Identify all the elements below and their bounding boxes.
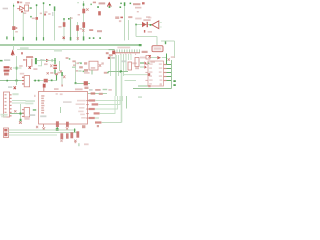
wire y71: [108, 71, 128, 73]
node dot f2: [38, 80, 40, 82]
comp on box bottom 1: [56, 121, 59, 127]
label inside U1: [159, 84, 162, 85]
C5 cross: [10, 67, 12, 70]
wire vert x62: [61, 72, 63, 85]
node dot f3: [51, 80, 53, 82]
label x f: [47, 72, 49, 74]
pin tick V2 bottom: [23, 37, 24, 41]
bus bundle wire 2: [115, 55, 117, 96]
power label VCC: [99, 2, 106, 4]
label small: [78, 14, 80, 16]
label right: [84, 72, 90, 74]
green dash x33: [33, 109, 36, 111]
label near V7: [70, 17, 72, 19]
buzzer SP1: [152, 21, 159, 29]
label crossing V10: [120, 17, 123, 19]
pin row stub c: [78, 70, 81, 71]
faint label: [148, 31, 152, 33]
label pair: [115, 16, 119, 19]
capacitor C6 stub top: [54, 58, 56, 64]
cap row comp2: [66, 133, 69, 138]
wire isp 3: [9, 134, 58, 136]
wire power input: [0, 80, 24, 82]
node dot prow: [80, 63, 82, 65]
node dot buzzer: [150, 24, 152, 26]
node dot D: [89, 37, 91, 39]
net text tr: [138, 96, 142, 98]
chain wire 1: [151, 57, 157, 59]
net label on rail 2: [54, 49, 62, 52]
red tick bottom: [75, 141, 77, 144]
bus bundle wire 3: [118, 55, 120, 76]
capacitor C1 on V1: [12, 26, 15, 30]
node dot on power wire: [6, 80, 8, 82]
node dot: [68, 18, 70, 20]
pin stub y104.5: [86, 104, 88, 105]
wire up from node: [56, 75, 58, 81]
pin stub y118: [86, 118, 88, 119]
wire vcc stub: [13, 45, 15, 50]
node after LED1: [147, 62, 149, 64]
label above box 5: [108, 89, 111, 91]
label D2: [58, 26, 61, 28]
chain comp L: [146, 55, 150, 59]
label left of button: [84, 62, 87, 64]
net label y100.5: [89, 99, 96, 101]
label above box 2: [75, 88, 83, 90]
wire V8: [77, 22, 79, 41]
pin tick V5 top: [54, 6, 56, 10]
node dots right: [173, 80, 175, 82]
pin tick V4 bottom: [43, 37, 44, 40]
net label y104.5: [92, 103, 99, 105]
wire second rail: [17, 49, 114, 51]
fuse F1: [44, 79, 48, 83]
wire horizontal lower: [136, 36, 157, 38]
junction mark D1: [86, 8, 88, 10]
junction mark V4: [44, 14, 46, 16]
junction power: [16, 80, 18, 82]
pin tick junction: [165, 41, 166, 44]
wire V7: [70, 17, 72, 41]
wire vert mid: [59, 61, 61, 71]
wire pin y93.5: [88, 93, 107, 95]
wire j1 main: [10, 113, 24, 115]
diode D1 on V9: [82, 9, 85, 14]
pin labels right side inside: [76, 100, 86, 119]
label C1: [15, 31, 18, 33]
gate cross mark: [21, 11, 23, 13]
wire stub y118: [95, 117, 99, 119]
chain cross 2: [168, 58, 170, 60]
power symbol VCC arrow: [107, 2, 111, 7]
RN1 top label: [117, 47, 130, 49]
wire isp 2: [9, 132, 79, 134]
polyfuse on y83: [84, 81, 88, 85]
wire fuse right: [48, 80, 57, 82]
crystal Y1 above box: [43, 84, 46, 88]
pin row label a1: [72, 60, 75, 62]
faint label: [135, 18, 141, 20]
net text gray: [40, 59, 45, 61]
wire left stub: [0, 60, 3, 62]
SV1 inner marks2: [4, 133, 7, 137]
diode D6: [46, 59, 50, 62]
power symbol +5V arrow: [11, 50, 14, 55]
gnd cross symbol: [19, 121, 22, 123]
wire V4: [43, 3, 45, 41]
diode D2 on V6: [63, 22, 66, 27]
wire y113.5: [100, 96, 115, 114]
button cross: [99, 64, 101, 67]
pin tick V3 top: [36, 4, 38, 6]
J1 pins right: [10, 94, 12, 116]
bus bundle wire 7: [128, 54, 130, 60]
label text right of box: [25, 2, 30, 4]
wire stub x60: [60, 107, 62, 113]
cross above isp wires: [36, 126, 38, 128]
label f text: [50, 72, 53, 74]
node dot B: [109, 6, 111, 8]
green label rows: [25, 100, 35, 102]
wire y88 long: [133, 88, 172, 90]
gnd cross bottom: [74, 140, 76, 142]
node dot G: [120, 3, 122, 5]
capacitor C5 plate2: [4, 70, 10, 72]
wire y104.5: [98, 96, 120, 105]
bus bundle wire 5: [123, 54, 125, 76]
capacitor C5 label: [4, 73, 9, 76]
label red near rail: [106, 52, 109, 54]
label above box 4: [95, 89, 100, 91]
bus bundle wire 8: [130, 54, 132, 60]
pin stub y100.5: [86, 100, 88, 101]
node dot reg: [51, 60, 53, 62]
wire V9: [83, 1, 85, 41]
pin row stub c2: [84, 70, 87, 71]
wire gnd vertical: [20, 104, 22, 120]
wire V1: [13, 4, 15, 41]
wire V5: [54, 7, 56, 41]
label small top: [66, 57, 69, 59]
X3 pins: [22, 109, 24, 117]
light green text rows tl: [25, 99, 27, 101]
LED wire 2: [140, 66, 144, 68]
pin tick V9 top: [83, 3, 85, 5]
green label rows2: [25, 103, 33, 105]
chain vertical: [166, 54, 168, 65]
net label y93.5b: [99, 93, 103, 95]
label tick: [144, 30, 145, 33]
wire isp 1: [9, 129, 77, 131]
node dot wire start: [135, 24, 137, 26]
gnd net text2: [1, 116, 6, 118]
IC U1 body: [148, 61, 164, 86]
resistor R4 on V9: [82, 22, 85, 28]
label pair2: [119, 20, 121, 22]
arrow below polyfuse: [84, 87, 88, 89]
gnd cross comp2: [66, 127, 69, 130]
bus bundle wire 6: [125, 54, 127, 72]
net label y93.5: [91, 92, 96, 94]
node dot stray: [30, 16, 32, 18]
rail bright segment: [109, 49, 115, 51]
RN1 right label: [142, 51, 148, 53]
small dash: [137, 11, 139, 12]
wire V2: [22, 12, 24, 41]
wire below comp1: [56, 127, 58, 130]
SV1 inner marks: [4, 129, 7, 131]
wire j1 b: [12, 102, 26, 104]
net label y118: [89, 117, 95, 119]
label f text2: [57, 72, 60, 74]
bus bundle wire 4: [120, 54, 122, 72]
faint dash inside box a: [56, 93, 58, 95]
cap row comp1: [60, 133, 63, 139]
pin tick V7 bottom: [70, 37, 72, 41]
U1 pin names right col: [159, 63, 162, 64]
U1 pins left stubs: [145, 64, 148, 81]
module A1 big box: [39, 92, 88, 125]
connector X2: [24, 76, 29, 87]
wire y100.5: [95, 96, 122, 101]
wire rail 3v3: [37, 59, 56, 61]
connector X2 pins: [22, 77, 24, 78]
long vertical x121: [121, 72, 123, 123]
button stub down: [91, 70, 93, 75]
rotated net name: [52, 12, 53, 16]
marks below U5: [135, 67, 139, 69]
wire j1 a: [12, 100, 26, 102]
wire V11: [128, 20, 130, 40]
green dash above box: [103, 89, 108, 90]
node dot C: [120, 6, 122, 8]
wire to buzzer: [136, 24, 152, 26]
node dot: [30, 7, 32, 9]
label rows top right: [133, 3, 140, 5]
pin tick V4 top: [43, 2, 45, 4]
gnd cross below junction: [14, 86, 16, 89]
pin stub y113.5: [86, 113, 88, 114]
wire y74.5 light: [124, 74, 150, 76]
button S1 box: [89, 61, 98, 70]
pin name column inside box: [41, 95, 44, 113]
wire cap link: [13, 67, 22, 69]
node dot below comp1: [56, 128, 59, 131]
pin tick V1 top: [13, 5, 14, 7]
cross on vert mid: [60, 70, 62, 72]
wire vertical reg: [16, 56, 18, 85]
junction y71: [120, 70, 122, 72]
button arrow: [101, 62, 103, 64]
capacitor C6 stub bottom: [54, 69, 56, 74]
pin stub y109: [86, 109, 88, 110]
value label V4: [44, 11, 47, 13]
label mid: [104, 72, 108, 74]
optocoupler U3 box: [25, 5, 29, 11]
regulator pin left: [23, 59, 26, 60]
gnd cross bottom2: [60, 140, 62, 142]
U1 pins right stubs: [164, 64, 167, 81]
transistor Q1: [17, 6, 24, 10]
chain cross: [149, 55, 151, 57]
gnd mark V6: [63, 37, 65, 39]
net text gray bundle2: [122, 60, 127, 62]
connector X3: [24, 108, 29, 117]
reg top tick red: [21, 52, 23, 54]
pin tick V6 top: [63, 18, 64, 20]
LED wire 1: [140, 62, 144, 64]
connector J1: [4, 92, 10, 117]
gnd label: [8, 86, 12, 88]
cross x62: [63, 75, 65, 78]
gnd mark V8: [77, 37, 79, 39]
wire to USB: [156, 37, 158, 46]
J1 inner pin marks: [5, 94, 7, 113]
wire y122.5: [102, 122, 122, 124]
red mark y125 right: [82, 125, 85, 128]
capacitor C6 plates: [53, 65, 57, 67]
pin tick V1 bottom: [13, 37, 14, 41]
pin row stub a1: [78, 62, 81, 63]
label right of V10: [128, 16, 132, 18]
junction bright 1: [16, 67, 18, 70]
label U4: [132, 62, 137, 64]
resistor network RN1 comb: [113, 52, 140, 54]
wire y109: [95, 96, 118, 109]
label D4: [89, 29, 93, 31]
chain wire 2: [162, 57, 167, 59]
value label: [20, 2, 23, 4]
wire down from junction: [16, 81, 18, 86]
label right of J1: [12, 93, 18, 95]
node dot F: [99, 37, 101, 39]
LED1: [144, 61, 146, 64]
junction gnd: [20, 113, 22, 115]
regulator label: [33, 68, 37, 70]
wire V3: [36, 5, 38, 41]
ISP header SV1: [4, 128, 9, 138]
label below: [23, 12, 26, 14]
button inner mark: [91, 67, 95, 69]
D6 gnd cross: [50, 64, 52, 67]
gnd cross fuse: [43, 83, 45, 86]
cap row comp3: [70, 132, 73, 138]
gnd tick: [20, 119, 22, 121]
pin tick V3 bottom: [36, 37, 37, 40]
wire GND bus: [0, 44, 142, 46]
faint label tr: [148, 17, 151, 19]
label top right of V9: [93, 2, 96, 4]
wire stub from U3: [29, 7, 31, 9]
resistor R3 on V8: [76, 25, 79, 31]
USB connector X1: [152, 46, 163, 52]
label above X2: [20, 73, 24, 75]
wire reg output bar: [35, 58, 37, 64]
wire V6: [63, 18, 65, 41]
label above box 3: [89, 89, 93, 91]
regulator label2: [19, 65, 22, 67]
label D5: [143, 19, 150, 21]
green dash to comp3: [74, 129, 76, 133]
label U5: [140, 57, 146, 59]
pin tick V9 bottom: [83, 36, 85, 40]
wire y86: [138, 85, 148, 87]
red dot tr: [108, 57, 110, 59]
node dot prow2: [83, 71, 85, 73]
chain diode: [157, 56, 161, 59]
cross j1: [14, 110, 16, 112]
gnd mark R4: [82, 29, 84, 31]
label R3: [80, 28, 82, 30]
chain label: [171, 56, 175, 58]
wire V10: [124, 3, 126, 41]
resistor R2 on V3: [36, 17, 39, 20]
node dot A: [97, 6, 99, 8]
comp on box bottom 2: [66, 122, 69, 127]
pin row stub b: [72, 67, 75, 68]
label above box 1: [54, 88, 59, 90]
faint text bottom: [84, 143, 89, 145]
net name text: [4, 59, 10, 61]
label text left: [3, 8, 8, 10]
bright seg x62: [61, 72, 63, 76]
U1 wires right: [167, 65, 172, 81]
U1 pin names left col: [149, 63, 152, 64]
node dot faint: [77, 2, 78, 3]
capacitor C5 plates: [4, 66, 10, 68]
red dot tr label: [111, 57, 115, 59]
capacitor C6 plate2: [53, 67, 57, 69]
label R2: [32, 18, 35, 20]
red tick x62: [61, 85, 63, 87]
red dot mid: [97, 125, 99, 127]
X3 label below: [24, 118, 29, 120]
node dot small: [69, 58, 71, 60]
wire vertical x126: [126, 96, 128, 109]
node dot: [49, 4, 51, 6]
junction x75 bottom: [75, 82, 77, 84]
wire small L: [38, 59, 42, 66]
diode D4: [98, 11, 101, 15]
small IC U4: [128, 62, 132, 70]
gnd cross box left: [42, 127, 45, 130]
label red near rail2: [109, 54, 113, 56]
gray text inside box: [40, 115, 46, 117]
box pin tick bottom left: [43, 124, 45, 127]
regulator gnd cross: [29, 66, 31, 69]
polarity mark C1: [16, 27, 18, 29]
D6 label: [44, 63, 48, 65]
chain label2: [150, 61, 155, 63]
node dot H: [130, 3, 132, 5]
label on V5: [48, 13, 50, 15]
pin row label a2: [76, 62, 79, 64]
pin row label c1: [76, 70, 78, 72]
RN1 left blob: [112, 51, 115, 55]
pin tick bottom right: [78, 143, 79, 146]
bus bundle wire 1: [110, 56, 112, 76]
faint label2: [146, 16, 150, 18]
stray pin dash: [34, 95, 36, 97]
wire vert x75: [75, 62, 77, 84]
label row 2: [135, 7, 141, 9]
net label y109: [89, 108, 95, 110]
buzzer pin stubs: [159, 23, 162, 27]
label near V4: [40, 13, 42, 15]
node dot E: [93, 37, 95, 39]
wire y83: [76, 83, 91, 85]
